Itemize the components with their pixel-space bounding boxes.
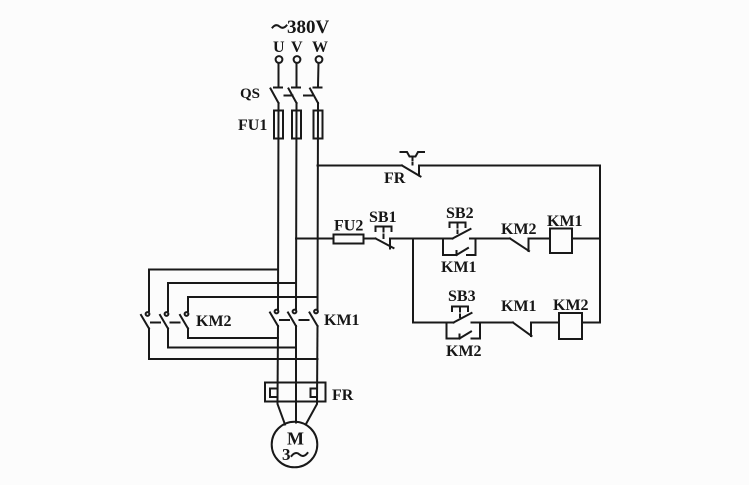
svg-text:QS: QS xyxy=(240,86,260,102)
wire FR contact to right rail xyxy=(420,165,601,167)
KM2 branch left vertical 1 upper xyxy=(148,270,150,312)
junction A vertical to row 2 xyxy=(412,239,414,323)
svg-text:3: 3 xyxy=(282,445,291,464)
svg-text:KM1: KM1 xyxy=(501,298,537,315)
fuse FU1 pole 2 xyxy=(292,111,301,139)
wire SB1 to junction A xyxy=(390,238,413,240)
FR heater bracket left xyxy=(270,389,277,398)
label 3~ xyxy=(282,445,308,464)
wire QS to FU1 (W) xyxy=(317,103,319,111)
SB2 blade xyxy=(453,229,471,239)
wire control tap W to FR contact xyxy=(318,165,403,167)
svg-text:KM2: KM2 xyxy=(446,343,482,360)
KM2 self-hold bottom wire left xyxy=(447,338,460,340)
KM1 self-hold branch right rise xyxy=(475,239,477,256)
contact KM2 NC (interlock row 1) blade xyxy=(510,239,529,252)
wire phase U down to KM1 contact xyxy=(277,111,280,310)
wire W terminal to QS xyxy=(317,63,320,86)
SB1 actuator xyxy=(376,227,392,242)
main contact KM1 pole 1 blade xyxy=(270,313,278,327)
fuse FU2 xyxy=(334,235,364,244)
KM1 self-hold bottom wire right xyxy=(467,254,476,256)
SB1 fixed bar xyxy=(389,239,391,249)
main contact KM1 pole 2 circle xyxy=(293,310,297,314)
svg-text:KM2: KM2 xyxy=(196,313,232,330)
KM2 branch left vertical 3 upper xyxy=(187,297,189,311)
KM2 main linkage dashes xyxy=(151,322,180,324)
FR NC contact fixed bar xyxy=(418,166,420,176)
coil KM2 xyxy=(559,313,582,339)
wire FU2 to SB1 xyxy=(364,238,376,240)
FR heater bracket right xyxy=(311,389,318,398)
svg-text:FR: FR xyxy=(384,170,406,187)
wire KM1 NC to coil KM2 xyxy=(531,322,559,324)
switch QS pole 3 xyxy=(310,88,322,104)
svg-text:KM2: KM2 xyxy=(553,297,589,314)
svg-text:KM2: KM2 xyxy=(501,221,537,238)
SB3 blade xyxy=(454,313,472,323)
SB2 actuator xyxy=(450,223,466,234)
KM1 self-hold bottom wire left xyxy=(443,254,457,256)
FR heater element outer box xyxy=(265,383,326,402)
wire phase W down to KM1 contact xyxy=(317,111,320,310)
KM2 branch lower vertical 3 xyxy=(187,329,189,339)
KM2 self-hold branch left drop xyxy=(446,323,448,339)
KM2 branch bottom wire 1 (to W) xyxy=(149,358,318,360)
svg-text:KM1: KM1 xyxy=(324,312,360,329)
KM2 self-hold branch right rise xyxy=(479,323,481,339)
wire coil KM2 to rail xyxy=(582,322,600,324)
motor M circle xyxy=(272,422,318,468)
right rail xyxy=(599,166,601,323)
svg-text:FU2: FU2 xyxy=(334,218,363,235)
main contact KM2 pole 1 circle xyxy=(146,312,150,316)
wire U terminal to QS xyxy=(278,63,280,86)
KM2 self-hold bottom wire right xyxy=(472,338,481,340)
svg-text:380V: 380V xyxy=(287,17,330,38)
svg-text:V: V xyxy=(291,39,303,56)
motor lead W xyxy=(306,402,317,425)
fuse FU1 pole 1 xyxy=(274,111,283,139)
terminal U xyxy=(276,56,283,63)
FR thermal actuator xyxy=(401,152,425,165)
terminal W xyxy=(316,56,323,63)
main contact KM1 pole 1 circle xyxy=(275,310,279,314)
svg-text:KM1: KM1 xyxy=(441,259,477,276)
main contact KM2 pole 1 blade xyxy=(141,315,149,329)
svg-text:FU1: FU1 xyxy=(238,117,267,134)
wire QS to FU1 (U) xyxy=(278,103,280,111)
KM2 branch top wire 2 (from V) xyxy=(168,282,296,284)
KM1 self-hold contact tick xyxy=(456,251,458,255)
KM2 branch bottom wire 3 (to U) xyxy=(188,337,278,339)
main contact KM1 pole 2 blade xyxy=(288,313,296,327)
terminal V xyxy=(294,56,301,63)
wire V below KM1 to FR element xyxy=(295,326,297,402)
KM2 NC fixed bar xyxy=(528,239,530,252)
KM2 branch lower vertical 1 xyxy=(148,329,150,360)
coil KM1 xyxy=(550,229,572,254)
KM1 NC fixed bar xyxy=(530,323,532,337)
motor lead V xyxy=(295,402,297,423)
label ~380V supply xyxy=(273,17,330,38)
wire SB3 to KM1 NC xyxy=(472,322,514,324)
wire phase V down to KM1 contact xyxy=(295,111,298,310)
svg-text:U: U xyxy=(273,39,285,56)
svg-text:SB2: SB2 xyxy=(446,205,474,222)
wire U below KM1 to FR element xyxy=(277,326,280,402)
KM2 branch lower vertical 2 xyxy=(167,329,169,348)
wire SB2 to KM2 NC xyxy=(470,238,510,240)
KM2 branch bottom wire 2 (to V) xyxy=(168,347,296,349)
KM2 branch top wire 1 (from U) xyxy=(149,269,278,271)
KM1 self-hold contact blade xyxy=(457,248,469,255)
svg-text:FR: FR xyxy=(332,387,354,404)
wire KM2 NC to coil KM1 xyxy=(529,238,551,240)
svg-text:SB3: SB3 xyxy=(448,288,476,305)
pushbutton SB1 (NC stop) blade xyxy=(376,239,394,249)
main contact KM2 pole 2 circle xyxy=(165,312,169,316)
wire junction A to SB3 (row 2) xyxy=(413,322,454,324)
main contact KM2 pole 2 blade xyxy=(160,315,168,329)
svg-text:KM1: KM1 xyxy=(547,213,583,230)
KM2 self-hold contact tick xyxy=(459,335,461,339)
KM1 main linkage dashes xyxy=(280,319,309,321)
contact KM1 NC (interlock row 2) blade xyxy=(513,323,532,337)
FR NC contact blade xyxy=(402,166,421,177)
motor lead U xyxy=(278,402,286,425)
KM2 branch top wire 3 (from W) xyxy=(188,296,318,298)
svg-text:W: W xyxy=(312,39,328,56)
svg-text:SB1: SB1 xyxy=(369,209,397,226)
QS linkage dashes xyxy=(285,95,313,97)
main contact KM1 pole 3 circle xyxy=(314,310,318,314)
main contact KM2 pole 3 circle xyxy=(185,312,189,316)
wire junction A to SB2 xyxy=(413,238,453,240)
wire control tap V to FU2 xyxy=(296,238,334,240)
switch QS pole 2 xyxy=(289,88,301,104)
KM1 self-hold branch left drop xyxy=(442,239,444,256)
switch QS pole 1 xyxy=(271,88,283,104)
SB3 actuator xyxy=(452,307,468,318)
main contact KM1 pole 3 blade xyxy=(310,313,318,327)
KM2 self-hold contact blade xyxy=(460,332,472,339)
wire QS to FU1 (V) xyxy=(296,103,298,111)
wire W below KM1 to FR element xyxy=(316,326,319,402)
KM2 branch left vertical 2 upper xyxy=(167,283,169,311)
fuse FU1 pole 3 xyxy=(314,111,323,139)
wire coil KM1 to rail xyxy=(572,238,600,240)
main contact KM2 pole 3 blade xyxy=(180,315,188,329)
wire V terminal to QS xyxy=(296,63,298,86)
